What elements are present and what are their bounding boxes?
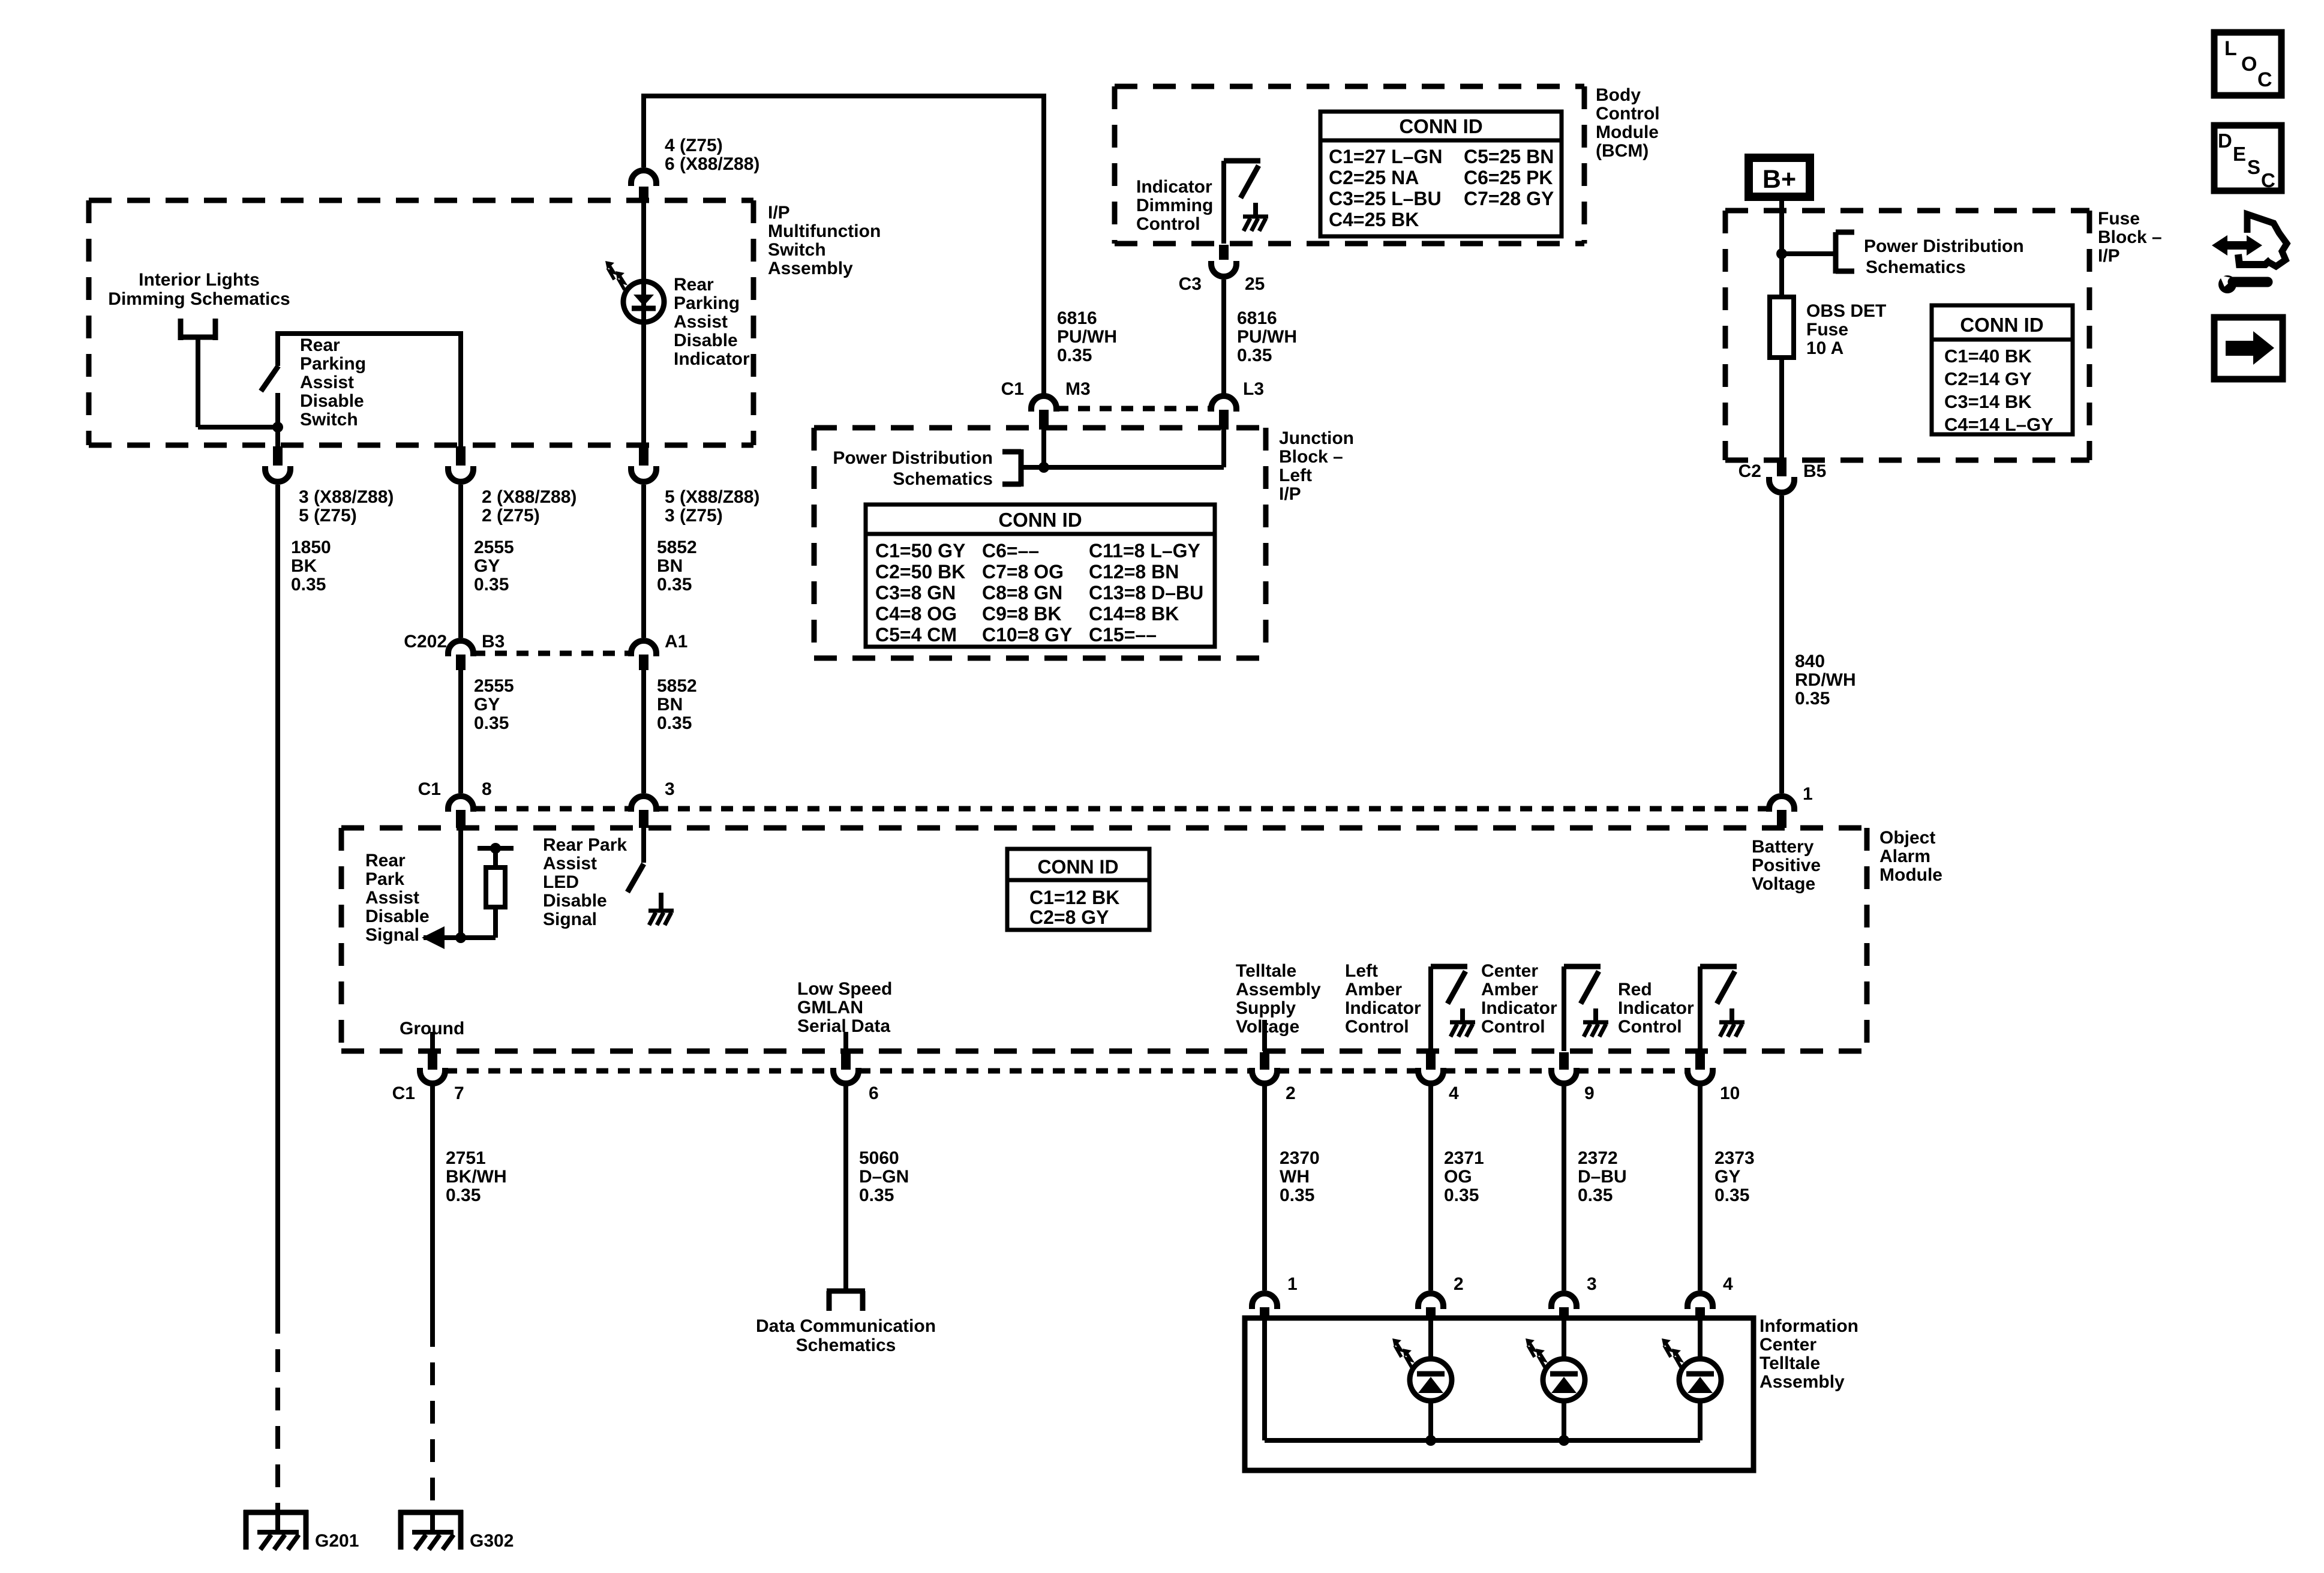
- svg-text:Control: Control: [1618, 1017, 1682, 1037]
- svg-text:Schematics: Schematics: [796, 1335, 896, 1355]
- svg-text:7: 7: [454, 1083, 464, 1103]
- svg-text:Indicator: Indicator: [1618, 998, 1694, 1018]
- svg-text:Telltale: Telltale: [1759, 1353, 1820, 1373]
- svg-text:C2: C2: [1739, 461, 1761, 481]
- svg-text:3 (X88/Z88): 3 (X88/Z88): [299, 487, 394, 507]
- svg-text:Information: Information: [1759, 1316, 1858, 1336]
- svg-text:C202: C202: [404, 632, 447, 652]
- svg-text:BK: BK: [291, 556, 317, 576]
- svg-text:C1: C1: [1001, 379, 1024, 399]
- svg-text:Control: Control: [1596, 104, 1660, 124]
- svg-text:Dimming Schematics: Dimming Schematics: [108, 289, 290, 309]
- svg-text:Parking: Parking: [300, 354, 366, 374]
- svg-text:3: 3: [665, 779, 675, 799]
- svg-text:Fuse: Fuse: [1806, 320, 1848, 340]
- svg-text:C6=25 PK: C6=25 PK: [1464, 167, 1553, 188]
- svg-text:6: 6: [869, 1083, 879, 1103]
- svg-text:C3=14 BK: C3=14 BK: [1944, 391, 2032, 412]
- svg-text:C1: C1: [418, 779, 441, 799]
- svg-text:4: 4: [1449, 1083, 1459, 1103]
- svg-text:C2=14 GY: C2=14 GY: [1944, 368, 2032, 389]
- svg-text:0.35: 0.35: [474, 575, 509, 595]
- svg-text:C1: C1: [392, 1083, 415, 1103]
- svg-text:0.35: 0.35: [657, 713, 692, 733]
- svg-text:C2=8 GY: C2=8 GY: [1029, 906, 1109, 928]
- svg-text:5852: 5852: [657, 676, 697, 696]
- svg-text:CONN ID: CONN ID: [1960, 314, 2043, 336]
- svg-text:0.35: 0.35: [657, 575, 692, 595]
- svg-text:0.35: 0.35: [1280, 1185, 1314, 1205]
- svg-text:Control: Control: [1136, 214, 1200, 234]
- svg-text:D: D: [2218, 130, 2232, 152]
- svg-text:D–BU: D–BU: [1578, 1167, 1627, 1187]
- svg-text:Multifunction: Multifunction: [768, 221, 881, 241]
- svg-text:3: 3: [1587, 1274, 1597, 1294]
- svg-text:C5=4 CM: C5=4 CM: [875, 624, 957, 646]
- svg-text:Module: Module: [1596, 122, 1659, 142]
- svg-text:0.35: 0.35: [446, 1185, 481, 1205]
- svg-text:C2=50 BK: C2=50 BK: [875, 561, 965, 583]
- svg-text:Indicator: Indicator: [1136, 177, 1212, 197]
- svg-text:G302: G302: [470, 1531, 514, 1551]
- svg-text:2555: 2555: [474, 538, 514, 557]
- svg-text:840: 840: [1795, 652, 1825, 671]
- svg-text:2 (X88/Z88): 2 (X88/Z88): [482, 487, 577, 507]
- svg-text:0.35: 0.35: [291, 575, 326, 595]
- svg-text:Schematics: Schematics: [1866, 257, 1966, 277]
- svg-text:M3: M3: [1065, 379, 1091, 399]
- svg-text:C1=27 L–GN: C1=27 L–GN: [1329, 146, 1442, 167]
- svg-text:C8=8 GN: C8=8 GN: [982, 582, 1062, 604]
- svg-text:L: L: [2224, 37, 2237, 60]
- svg-text:Disable: Disable: [300, 391, 364, 411]
- svg-text:2751: 2751: [446, 1148, 486, 1168]
- svg-text:2371: 2371: [1444, 1148, 1484, 1168]
- svg-text:Amber: Amber: [1481, 980, 1538, 999]
- svg-text:Voltage: Voltage: [1236, 1017, 1299, 1037]
- svg-text:Switch: Switch: [768, 240, 826, 260]
- svg-text:Battery: Battery: [1752, 837, 1814, 857]
- svg-text:OG: OG: [1444, 1167, 1472, 1187]
- svg-text:0.35: 0.35: [1578, 1185, 1613, 1205]
- svg-text:2373: 2373: [1715, 1148, 1755, 1168]
- svg-text:Block –: Block –: [2098, 227, 2162, 247]
- svg-text:4: 4: [1723, 1274, 1733, 1294]
- svg-text:PU/WH: PU/WH: [1057, 327, 1117, 347]
- svg-text:Disable: Disable: [674, 331, 738, 350]
- svg-text:LED: LED: [543, 872, 579, 892]
- svg-text:B3: B3: [482, 632, 505, 652]
- svg-text:CONN ID: CONN ID: [1037, 856, 1118, 878]
- svg-text:2370: 2370: [1280, 1148, 1320, 1168]
- svg-text:BN: BN: [657, 695, 683, 715]
- svg-text:Assembly: Assembly: [1236, 980, 1321, 999]
- svg-text:Signal: Signal: [543, 909, 597, 929]
- svg-text:G201: G201: [315, 1531, 359, 1551]
- svg-text:B5: B5: [1803, 461, 1826, 481]
- svg-text:2 (Z75): 2 (Z75): [482, 506, 540, 526]
- svg-text:Signal: Signal: [365, 925, 419, 945]
- svg-text:Assembly: Assembly: [768, 259, 853, 278]
- svg-text:B+: B+: [1762, 165, 1796, 194]
- svg-text:6816: 6816: [1057, 308, 1097, 328]
- svg-text:0.35: 0.35: [1444, 1185, 1479, 1205]
- svg-text:C3=8 GN: C3=8 GN: [875, 582, 956, 604]
- svg-text:A1: A1: [665, 632, 687, 652]
- svg-text:BN: BN: [657, 556, 683, 576]
- svg-text:Assembly: Assembly: [1759, 1372, 1845, 1392]
- svg-text:Schematics: Schematics: [893, 469, 993, 489]
- svg-text:2555: 2555: [474, 676, 514, 696]
- svg-text:O: O: [2241, 53, 2257, 76]
- svg-text:C2=25 NA: C2=25 NA: [1329, 167, 1419, 188]
- svg-text:PU/WH: PU/WH: [1237, 327, 1297, 347]
- svg-text:C: C: [2261, 169, 2275, 191]
- svg-text:C12=8 BN: C12=8 BN: [1089, 561, 1179, 583]
- svg-text:Assist: Assist: [300, 373, 354, 392]
- svg-text:Dimming: Dimming: [1136, 196, 1213, 215]
- svg-text:L3: L3: [1243, 379, 1264, 399]
- svg-text:(BCM): (BCM): [1596, 141, 1649, 161]
- svg-text:4 (Z75): 4 (Z75): [665, 136, 723, 155]
- svg-text:Body: Body: [1596, 85, 1641, 105]
- svg-text:1: 1: [1287, 1274, 1298, 1294]
- svg-text:E: E: [2233, 143, 2246, 165]
- svg-text:Rear: Rear: [300, 335, 340, 355]
- svg-text:Alarm: Alarm: [1879, 846, 1930, 866]
- svg-text:CONN ID: CONN ID: [1399, 115, 1482, 137]
- svg-text:Data Communication: Data Communication: [756, 1316, 936, 1336]
- svg-text:Assist: Assist: [543, 854, 597, 873]
- svg-text:1: 1: [1803, 784, 1813, 804]
- svg-text:Module: Module: [1879, 865, 1942, 885]
- svg-text:25: 25: [1245, 274, 1265, 294]
- svg-text:0.35: 0.35: [1795, 689, 1830, 709]
- svg-text:Indicator: Indicator: [1345, 998, 1421, 1018]
- svg-text:5 (X88/Z88): 5 (X88/Z88): [665, 487, 759, 507]
- svg-text:I/P: I/P: [2098, 246, 2120, 266]
- svg-text:Low Speed: Low Speed: [797, 979, 892, 999]
- svg-text:C13=8 D–BU: C13=8 D–BU: [1089, 582, 1203, 604]
- svg-text:C1=50 GY: C1=50 GY: [875, 540, 965, 562]
- svg-text:C5=25 BN: C5=25 BN: [1464, 146, 1554, 167]
- svg-text:CONN ID: CONN ID: [998, 509, 1082, 531]
- svg-text:0.35: 0.35: [859, 1185, 894, 1205]
- svg-text:2372: 2372: [1578, 1148, 1618, 1168]
- svg-text:6 (X88/Z88): 6 (X88/Z88): [665, 154, 759, 174]
- svg-text:C6=––: C6=––: [982, 540, 1039, 562]
- svg-text:Control: Control: [1481, 1017, 1545, 1037]
- svg-text:2: 2: [1454, 1274, 1464, 1294]
- svg-text:9: 9: [1584, 1083, 1595, 1103]
- svg-text:5852: 5852: [657, 538, 697, 557]
- svg-text:Junction: Junction: [1279, 428, 1354, 448]
- svg-text:RD/WH: RD/WH: [1795, 670, 1856, 690]
- svg-text:C14=8 BK: C14=8 BK: [1089, 603, 1179, 625]
- svg-text:0.35: 0.35: [1057, 346, 1092, 365]
- svg-text:Rear Park: Rear Park: [543, 835, 627, 855]
- svg-text:Supply: Supply: [1236, 998, 1296, 1018]
- svg-text:Center: Center: [1481, 961, 1538, 981]
- svg-text:Block –: Block –: [1279, 447, 1343, 467]
- svg-text:BK/WH: BK/WH: [446, 1167, 507, 1187]
- svg-text:C7=28 GY: C7=28 GY: [1464, 188, 1554, 209]
- svg-text:Power Distribution: Power Distribution: [833, 448, 993, 468]
- svg-text:C1=40 BK: C1=40 BK: [1944, 346, 2032, 367]
- svg-text:GY: GY: [1715, 1167, 1740, 1187]
- svg-text:Left: Left: [1279, 466, 1312, 485]
- svg-text:I/P: I/P: [1279, 484, 1301, 504]
- svg-text:Rear: Rear: [365, 851, 406, 870]
- svg-text:C1=12 BK: C1=12 BK: [1029, 887, 1119, 908]
- svg-text:Park: Park: [365, 869, 404, 889]
- svg-text:C4=25 BK: C4=25 BK: [1329, 209, 1419, 230]
- svg-text:Telltale: Telltale: [1236, 961, 1296, 981]
- svg-text:Amber: Amber: [1345, 980, 1402, 999]
- svg-text:Red: Red: [1618, 980, 1652, 999]
- svg-text:Disable: Disable: [365, 906, 430, 926]
- svg-text:Interior Lights: Interior Lights: [139, 270, 260, 290]
- svg-text:6816: 6816: [1237, 308, 1277, 328]
- svg-text:GY: GY: [474, 556, 500, 576]
- svg-text:OBS DET: OBS DET: [1806, 301, 1886, 321]
- svg-text:10 A: 10 A: [1806, 338, 1843, 358]
- svg-text:C3=25 L–BU: C3=25 L–BU: [1329, 188, 1442, 209]
- svg-text:8: 8: [482, 779, 492, 799]
- svg-text:D–GN: D–GN: [859, 1167, 909, 1187]
- svg-text:Disable: Disable: [543, 891, 607, 911]
- svg-text:Left: Left: [1345, 961, 1378, 981]
- svg-text:Parking: Parking: [674, 293, 740, 313]
- svg-text:C4=14 L–GY: C4=14 L–GY: [1944, 414, 2053, 435]
- svg-text:WH: WH: [1280, 1167, 1310, 1187]
- svg-text:Center: Center: [1759, 1335, 1816, 1355]
- svg-text:Rear: Rear: [674, 275, 714, 295]
- svg-text:C10=8 GY: C10=8 GY: [982, 624, 1072, 646]
- svg-text:0.35: 0.35: [1715, 1185, 1749, 1205]
- svg-text:C: C: [2257, 68, 2272, 91]
- svg-text:GY: GY: [474, 695, 500, 715]
- svg-text:Assist: Assist: [365, 888, 419, 908]
- svg-text:C9=8 BK: C9=8 BK: [982, 603, 1062, 625]
- svg-text:Fuse: Fuse: [2098, 209, 2140, 229]
- svg-text:Power Distribution: Power Distribution: [1864, 236, 2024, 256]
- svg-text:Assist: Assist: [674, 312, 728, 332]
- svg-text:Control: Control: [1345, 1017, 1409, 1037]
- svg-text:5 (Z75): 5 (Z75): [299, 506, 357, 526]
- svg-text:0.35: 0.35: [474, 713, 509, 733]
- svg-text:Indicator: Indicator: [674, 349, 750, 369]
- svg-text:10: 10: [1720, 1083, 1740, 1103]
- svg-text:I/P: I/P: [768, 203, 790, 223]
- svg-text:0.35: 0.35: [1237, 346, 1272, 365]
- svg-text:C11=8 L–GY: C11=8 L–GY: [1089, 540, 1200, 562]
- svg-text:2: 2: [1286, 1083, 1296, 1103]
- svg-text:C15=––: C15=––: [1089, 624, 1157, 646]
- svg-text:C4=8 OG: C4=8 OG: [875, 603, 957, 625]
- svg-text:5060: 5060: [859, 1148, 899, 1168]
- svg-text:Voltage: Voltage: [1752, 874, 1815, 894]
- svg-text:S: S: [2247, 156, 2260, 178]
- svg-text:1850: 1850: [291, 538, 331, 557]
- svg-text:C3: C3: [1179, 274, 1202, 294]
- svg-text:Positive: Positive: [1752, 855, 1821, 875]
- svg-text:Object: Object: [1879, 828, 1935, 848]
- svg-text:GMLAN: GMLAN: [797, 998, 863, 1017]
- svg-text:3 (Z75): 3 (Z75): [665, 506, 723, 526]
- svg-text:C7=8 OG: C7=8 OG: [982, 561, 1064, 583]
- svg-text:Indicator: Indicator: [1481, 998, 1557, 1018]
- svg-text:Switch: Switch: [300, 410, 358, 430]
